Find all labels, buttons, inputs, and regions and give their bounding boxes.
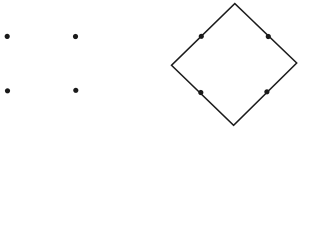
tilted square through the four dots [172,4,297,126]
dot on bottom-right edge of square [264,89,269,94]
dot on top-right edge of square [266,34,271,39]
dot top-right of left group [73,34,78,39]
dot top-left of left group [5,34,10,39]
dot bottom-right of left group [73,88,78,93]
dot bottom-left of left group [5,88,10,93]
dot on bottom-left edge of square [198,90,203,95]
dot on top-left edge of square [199,34,204,39]
